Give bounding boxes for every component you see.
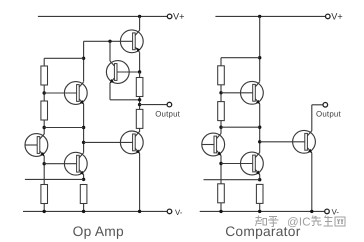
resistor RC3 [218, 184, 225, 203]
junction node RC1 top [258, 56, 261, 59]
wire QC4 base [260, 141, 305, 143]
wire R6 to Q6 collector [139, 128, 141, 131]
wire Q2 collector up [109, 41, 111, 61]
wire QC2 emitter down [220, 156, 222, 184]
wire QC4 emitter to V- rail [311, 153, 313, 212]
svg-text:Op Amp: Op Amp [73, 224, 124, 239]
svg-text:V+: V+ [173, 12, 185, 22]
wire Q1 emitter down [139, 52, 141, 72]
wire Q3 emitter to Q5 collector [83, 104, 85, 153]
watermark 先生网 glyphs [312, 216, 346, 227]
junction node R1 top [82, 57, 85, 60]
junction Q1 collector / V+ rail [138, 15, 141, 18]
svg-text:Output: Output [316, 110, 341, 119]
wire into R1 [43, 58, 45, 66]
wire R1 top to vertical [44, 57, 83, 59]
transistor Q3 [44, 82, 87, 105]
wire RC4 to V- rail [259, 203, 261, 211]
wire cross link [44, 127, 83, 129]
wire Q5 emitter stub [83, 175, 85, 180]
junction Q1 base / Q2 collector [108, 40, 111, 43]
wire input line (op amp) [25, 178, 84, 180]
wire RC2 to QC2 collector [220, 121, 222, 134]
watermark 知乎 glyphs [256, 216, 279, 227]
wire R5 to R6 [139, 97, 141, 110]
transistor Q4 [25, 134, 48, 157]
junction colF / V+ rail [258, 15, 261, 18]
resistor RC2 [218, 102, 225, 121]
wire QC4 collector up [311, 105, 313, 131]
wire to output terminal (comparator) [312, 104, 323, 106]
terminal V+ (comparator) [326, 14, 331, 19]
wire Q1 collector [139, 16, 141, 30]
resistor R4 [80, 185, 87, 204]
wire input line (comparator) [204, 179, 260, 181]
wire QC1 emitter to QC3 collector [259, 104, 261, 153]
terminal V- (op amp) [167, 209, 172, 214]
wire Q4 emitter down [43, 156, 45, 185]
junction RC2 bottom [219, 126, 222, 129]
svg-text:@IC: @IC [287, 216, 311, 228]
transistor QC3 [221, 152, 263, 175]
wire Q2 emitter down [109, 83, 111, 100]
resistor RC4 [256, 184, 263, 203]
junction QC4 emitter / V- rail [310, 210, 313, 213]
wire R3 to V- rail [43, 204, 45, 212]
wire V- rail (comparator) [200, 210, 325, 212]
wire V- rail (op amp) [23, 210, 167, 212]
junction output tap [138, 103, 141, 106]
terminal V+ (op amp) [167, 14, 172, 19]
junction colF mid [258, 126, 261, 129]
wire into RC1 [220, 58, 222, 66]
svg-text:Output: Output [155, 110, 180, 119]
transistor Q2 (mirrored) [106, 61, 139, 84]
junction QC4 base tap [258, 140, 261, 143]
junction emitter feed [138, 98, 141, 101]
junction RC3 / V- rail [219, 210, 222, 213]
terminal V- (comparator) [325, 209, 330, 214]
wire Q6 base [84, 141, 133, 143]
wire to output terminal (op amp) [140, 104, 168, 106]
wire left mirror vertical upper [83, 41, 85, 81]
transistor QC1 [221, 81, 263, 104]
junction RC1/RC2 - QC1 base [219, 91, 222, 94]
wire V+ rail (comparator) [215, 15, 325, 17]
wire R1 to R2 [43, 85, 45, 101]
wire colF upper vertical [259, 16, 261, 81]
wire V+ rail (op amp) [38, 15, 167, 17]
svg-text:V-: V- [175, 208, 183, 217]
terminal Output (comparator) [323, 103, 328, 108]
wire QC3 emitter stub [259, 175, 261, 180]
junction inverting input node [82, 178, 85, 181]
resistor RC1 [218, 66, 225, 85]
transistor Q6 (output) [120, 131, 143, 154]
junction Q6 base tap [82, 141, 85, 144]
resistor R1 [41, 66, 48, 85]
svg-text:V+: V+ [331, 12, 343, 22]
wire to R5 [139, 72, 141, 78]
junction Q2 base / colD [138, 70, 141, 73]
wire Q2 emitter to node [110, 99, 140, 101]
junction QC2 emitter / QC3 base [219, 162, 222, 165]
junction Q4 emitter / Q5 base [43, 162, 46, 165]
transistor Q5 [44, 152, 87, 175]
wire RC1 to RC2 [220, 85, 222, 102]
wire cross link (comparator) [221, 126, 260, 128]
wire R4 to V- rail [83, 204, 85, 212]
junction input node (comparator) [258, 178, 261, 181]
svg-text:V-: V- [332, 208, 340, 217]
wire Q1 base [84, 40, 133, 42]
junction R1/R2 - Q3 base [43, 91, 46, 94]
junction R2 bottom [43, 126, 46, 129]
resistor R6 [136, 109, 143, 128]
resistor R5 [136, 78, 143, 97]
wire Q6 emitter to V- rail [139, 153, 141, 211]
transistor Q1 (PNP) [120, 30, 143, 53]
transistor QC4 (output) [293, 130, 316, 153]
terminal Output (op amp) [167, 102, 172, 107]
junction RC4 / V- rail [258, 210, 261, 213]
wire RC1 top link [221, 57, 260, 59]
transistor QC2 [202, 133, 225, 156]
wire R2 to Q4 collector [43, 120, 45, 134]
resistor R3 [41, 185, 48, 204]
junction colB mid [82, 126, 85, 129]
junction Q6 emitter / V- rail [138, 210, 141, 213]
resistor R2 [41, 101, 48, 120]
wire RC3 to V- rail [220, 203, 222, 212]
junction R3 / V- rail [43, 210, 46, 213]
junction R4 / V- rail [82, 210, 85, 213]
